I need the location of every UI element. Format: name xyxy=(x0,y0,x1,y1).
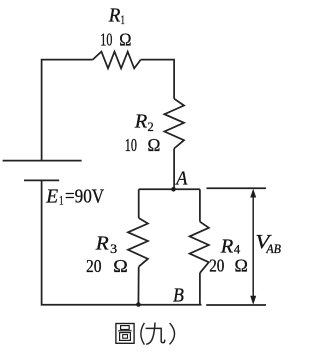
label E1=90V xyxy=(45,185,104,207)
svg-text:E: E xyxy=(45,185,58,207)
wire R4 to bottom wire xyxy=(199,273,201,305)
wire top-left horizontal xyxy=(42,60,93,161)
svg-text:1: 1 xyxy=(121,13,125,27)
VAB arrowhead up xyxy=(250,189,256,198)
caption glyph nine left stroke xyxy=(146,323,155,345)
svg-text:Ω: Ω xyxy=(113,256,128,276)
caption open parenthesis xyxy=(141,323,145,345)
value 20 ohm of R4 xyxy=(209,256,248,276)
label R3 xyxy=(95,233,117,256)
wire R3 to node B xyxy=(137,267,139,305)
value 20 ohm of R3 xyxy=(86,256,128,276)
svg-text:10: 10 xyxy=(125,135,137,155)
VAB arrowhead down xyxy=(250,296,256,305)
caption glyph TU middle bar xyxy=(118,330,131,332)
value 10 ohm of R1 xyxy=(100,29,131,49)
resistor R3 xyxy=(128,218,148,267)
resistor R2 xyxy=(164,99,184,149)
node A junction dot xyxy=(171,187,176,192)
wire node A line down to R4 xyxy=(199,189,201,221)
value 10 ohm of R2 xyxy=(125,135,161,155)
svg-text:10: 10 xyxy=(100,29,112,49)
svg-text:1: 1 xyxy=(59,194,64,208)
svg-text:20: 20 xyxy=(209,256,224,276)
caption glyph TU small mouth xyxy=(121,326,130,330)
caption glyph TU lower box xyxy=(120,333,131,341)
svg-text:AB: AB xyxy=(265,242,281,256)
label R2 xyxy=(134,111,154,134)
svg-text:R: R xyxy=(220,236,234,258)
svg-text:A: A xyxy=(174,167,187,189)
svg-text:4: 4 xyxy=(234,243,241,257)
svg-text:Ω: Ω xyxy=(235,256,248,276)
svg-text:B: B xyxy=(173,284,184,306)
svg-text:20: 20 xyxy=(86,256,102,276)
caption glyph nine horizontal and hook stroke xyxy=(146,328,165,342)
wire R2 to node A xyxy=(173,149,175,190)
svg-text:Ω: Ω xyxy=(119,29,131,49)
svg-text:3: 3 xyxy=(110,242,117,256)
caption glyph TU inner square xyxy=(123,335,128,339)
VAB double arrow line xyxy=(252,191,254,303)
svg-text:R: R xyxy=(108,5,121,27)
svg-text:R: R xyxy=(95,233,110,255)
node B junction dot xyxy=(136,302,141,307)
wire battery to bottom-left corner and bottom wire xyxy=(42,180,202,304)
label R1 xyxy=(108,5,125,27)
VAB top reference line xyxy=(207,187,267,189)
label R4 xyxy=(220,236,241,258)
battery E1 short plate xyxy=(24,179,59,181)
svg-text:2: 2 xyxy=(148,120,154,134)
svg-text:Ω: Ω xyxy=(148,135,161,155)
caption glyph TU (figure) outer box xyxy=(116,324,134,344)
VAB bottom reference line xyxy=(206,304,266,306)
caption close parenthesis xyxy=(170,323,175,344)
svg-text:=90V: =90V xyxy=(65,185,104,207)
wire node A horizontal xyxy=(139,188,200,190)
battery E1 long plate xyxy=(3,160,82,162)
svg-text:R: R xyxy=(134,111,148,133)
resistor R1 xyxy=(93,52,141,69)
label VAB xyxy=(255,231,281,256)
resistor R4 xyxy=(190,222,209,273)
wire R1 to corner and down to R2 xyxy=(141,60,174,99)
wire node A line down to R3 xyxy=(138,189,140,218)
